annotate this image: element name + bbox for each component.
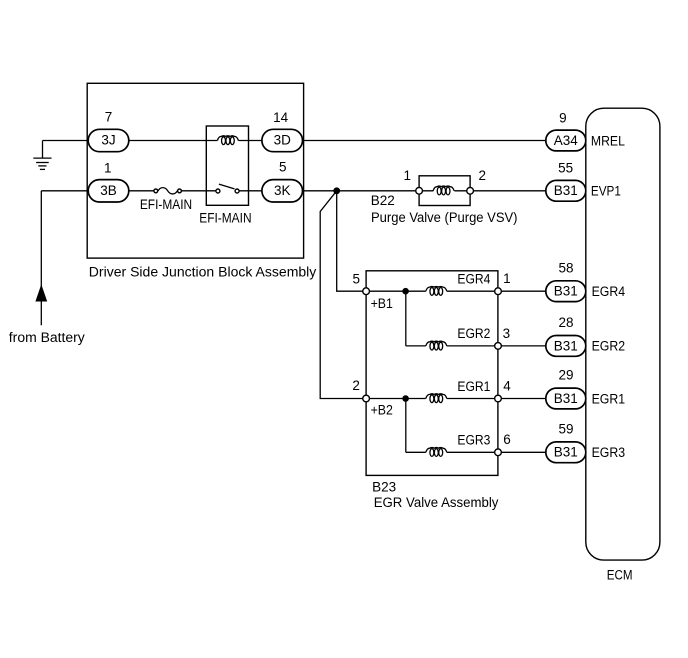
svg-text:29: 29 — [558, 368, 573, 383]
svg-text:+B1: +B1 — [371, 296, 393, 311]
svg-text:4: 4 — [503, 379, 511, 394]
svg-text:2: 2 — [352, 378, 360, 393]
svg-text:3K: 3K — [274, 183, 291, 198]
svg-text:B31: B31 — [554, 183, 578, 198]
svg-text:B31: B31 — [554, 445, 578, 460]
svg-text:EFI-MAIN: EFI-MAIN — [140, 197, 192, 212]
svg-text:5: 5 — [353, 271, 361, 286]
svg-text:EGR3: EGR3 — [592, 445, 626, 460]
svg-text:EVP1: EVP1 — [591, 184, 621, 199]
svg-text:EFI-MAIN: EFI-MAIN — [199, 210, 251, 225]
svg-text:EGR3: EGR3 — [457, 433, 490, 448]
svg-text:1: 1 — [503, 271, 511, 286]
svg-text:58: 58 — [558, 260, 573, 275]
svg-text:EGR4: EGR4 — [457, 272, 490, 287]
svg-text:+B2: +B2 — [371, 403, 393, 418]
svg-text:B31: B31 — [554, 284, 578, 299]
svg-text:EGR1: EGR1 — [592, 391, 626, 406]
svg-text:from Battery: from Battery — [9, 330, 85, 345]
svg-text:Purge Valve (Purge VSV): Purge Valve (Purge VSV) — [371, 210, 518, 225]
svg-text:EGR2: EGR2 — [457, 326, 490, 341]
svg-text:B31: B31 — [554, 391, 578, 406]
svg-text:EGR4: EGR4 — [592, 284, 626, 299]
svg-text:1: 1 — [403, 168, 411, 183]
svg-text:3B: 3B — [100, 183, 117, 198]
svg-text:2: 2 — [479, 168, 487, 183]
svg-text:3D: 3D — [274, 133, 292, 148]
svg-text:3: 3 — [503, 326, 511, 341]
svg-text:9: 9 — [559, 110, 567, 125]
svg-text:3J: 3J — [101, 133, 115, 148]
svg-text:A34: A34 — [554, 133, 579, 148]
svg-text:ECM: ECM — [607, 567, 633, 582]
svg-text:EGR1: EGR1 — [457, 379, 490, 394]
svg-text:5: 5 — [279, 160, 287, 175]
svg-text:7: 7 — [105, 110, 113, 125]
svg-text:14: 14 — [273, 110, 289, 125]
svg-text:EGR Valve Assembly: EGR Valve Assembly — [374, 495, 499, 510]
svg-text:1: 1 — [104, 161, 112, 176]
svg-text:59: 59 — [558, 422, 573, 437]
svg-text:B22: B22 — [371, 193, 395, 208]
svg-text:Driver Side Junction Block Ass: Driver Side Junction Block Assembly — [89, 265, 317, 280]
svg-text:MREL: MREL — [591, 133, 625, 148]
svg-text:EGR2: EGR2 — [592, 339, 626, 354]
svg-text:B23: B23 — [372, 479, 396, 494]
svg-text:6: 6 — [503, 432, 511, 447]
svg-text:55: 55 — [558, 161, 573, 176]
svg-text:B31: B31 — [554, 338, 578, 353]
svg-text:28: 28 — [558, 315, 573, 330]
